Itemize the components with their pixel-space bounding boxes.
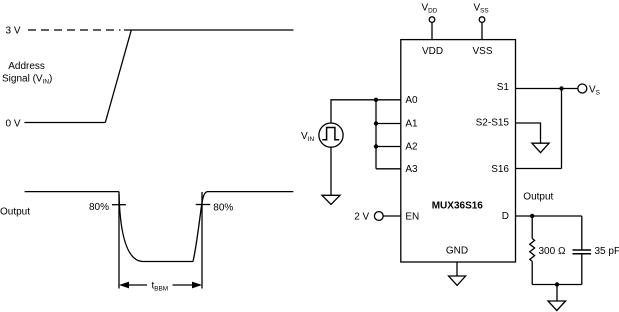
svg-text:Output: Output — [523, 192, 553, 203]
svg-text:VS: VS — [589, 85, 600, 97]
svg-text:GND: GND — [446, 246, 468, 257]
svg-text:MUX36S16: MUX36S16 — [432, 200, 484, 211]
node tBBM arrow — [121, 284, 147, 286]
junction dot A0 — [374, 98, 378, 102]
svg-text:80%: 80% — [213, 203, 233, 214]
svg-text:Output: Output — [0, 207, 30, 218]
ground S2-S15 — [532, 143, 549, 152]
svg-text:Address: Address — [8, 61, 45, 72]
wire output falling edge and left extension — [118, 192, 120, 289]
svg-text:S16: S16 — [491, 164, 509, 175]
wire output rising edge curve — [193, 192, 207, 262]
svg-text:EN: EN — [405, 212, 419, 223]
svg-text:3 V: 3 V — [6, 26, 21, 37]
svg-text:S2-S15: S2-S15 — [476, 118, 510, 129]
svg-text:D: D — [502, 211, 509, 222]
wire to A2 — [376, 146, 401, 148]
wire S16 — [516, 168, 562, 170]
wire 0V level — [24, 122, 105, 124]
svg-text:0 V: 0 V — [6, 119, 21, 130]
svg-text:2 V: 2 V — [354, 212, 369, 223]
svg-text:A2: A2 — [405, 142, 418, 153]
wire 3V dashed level — [28, 29, 121, 31]
svg-text:A3: A3 — [405, 164, 418, 175]
svg-text:A0: A0 — [405, 95, 418, 106]
junction dot D — [530, 214, 534, 218]
node 80% tick left — [112, 204, 126, 206]
svg-text:300 Ω: 300 Ω — [539, 246, 566, 257]
node 80% tick right — [196, 204, 211, 206]
wire VIN to ground — [330, 147, 332, 195]
ground output — [548, 301, 566, 311]
svg-text:35 pF: 35 pF — [595, 246, 619, 257]
node VS terminal — [578, 84, 587, 93]
wire address bus vertical — [375, 100, 377, 169]
ground under VIN — [322, 195, 340, 204]
svg-text:VDD: VDD — [422, 46, 443, 57]
op chip U1 MUX36S16 body — [401, 40, 516, 262]
capacitor 35 pF plates — [573, 249, 592, 251]
svg-text:80%: 80% — [89, 202, 109, 213]
svg-text:VIN: VIN — [301, 131, 314, 143]
wire resistor bottom — [531, 261, 533, 284]
wire to A1 — [376, 123, 401, 125]
svg-text:VSS: VSS — [474, 3, 489, 15]
wire right extension line — [201, 192, 203, 289]
wire output high level left — [25, 191, 119, 193]
ground under chip — [456, 262, 458, 276]
wire 2V to EN — [383, 215, 401, 217]
junction dot S1 — [559, 86, 563, 90]
wire to A3 — [376, 168, 401, 170]
wire output high level right — [207, 191, 293, 193]
wire 3V solid level — [124, 29, 294, 31]
svg-text:VSS: VSS — [473, 46, 493, 57]
junction dot bottom — [555, 282, 559, 286]
wire S2-S15 to ground — [516, 123, 541, 143]
resistor 300 ohm — [530, 239, 535, 262]
junction dot A2 — [374, 144, 378, 148]
wire output low level — [142, 261, 193, 263]
wire output fall exponential curve — [119, 194, 142, 262]
wire capacitor top — [581, 216, 583, 250]
svg-text:S1: S1 — [497, 82, 510, 93]
svg-text:Signal (VIN): Signal (VIN) — [2, 74, 52, 86]
junction dot A1 — [374, 121, 378, 125]
svg-text:VDD: VDD — [422, 3, 438, 15]
wire capacitor bottom — [581, 254, 583, 285]
wire to output ground — [556, 285, 558, 302]
svg-text:A1: A1 — [405, 119, 418, 130]
wire S1 to S16 vertical — [561, 89, 563, 169]
wire S1 to VS — [516, 88, 578, 90]
wire VIN to A0 — [331, 100, 401, 123]
wire resistor top — [531, 216, 533, 239]
svg-text:tBBM: tBBM — [152, 281, 169, 293]
wire bottom rail — [532, 284, 582, 286]
wire D output — [516, 215, 582, 217]
wire address ramp — [105, 30, 131, 123]
